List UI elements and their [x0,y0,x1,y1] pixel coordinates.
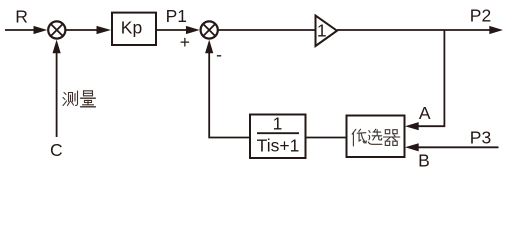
svg-text:R: R [15,7,28,27]
svg-text:P3: P3 [470,128,491,148]
svg-text:A: A [419,103,431,123]
gain amplifier 1 [316,16,338,47]
svg-text:Kp: Kp [121,18,142,38]
wire C input up to S1 [56,51,58,137]
wire P3 input [417,146,499,148]
glyph 量 [81,91,96,107]
wire S2 to amplifier [219,29,316,31]
svg-text:-: - [216,45,222,65]
glyph 选 [368,129,382,144]
wire S1 to Kp [66,29,99,31]
summing junction S2 [201,21,218,38]
svg-text:1: 1 [273,113,283,133]
glyph 低 [352,129,366,146]
arrowhead B into low selector [405,143,419,151]
svg-text:P2: P2 [470,6,491,26]
wire R input [5,29,36,31]
summing junction S1 [48,21,65,38]
block Kp [112,13,156,45]
arrowhead P2 output [489,26,503,34]
arrowhead A into low selector [405,122,419,130]
arrowhead into block Kp [97,26,112,34]
arrowhead C into S1 [53,40,61,54]
svg-text:P1: P1 [166,6,187,26]
svg-text:C: C [50,140,63,160]
svg-text:Tis+1: Tis+1 [257,136,300,156]
arrowhead into summing junction S2 [186,26,200,34]
svg-text:B: B [418,151,430,171]
arrowhead into summing junction S1 [34,26,48,34]
glyph 测 [63,91,78,106]
arrowhead feedback into S2 [205,40,213,54]
block 1/(Tis+1) [250,113,306,158]
wire branch down to low selector [417,30,444,126]
wire feedback to S2 [209,51,250,138]
block low selector [347,116,405,158]
wire Kp to S2 [157,29,188,31]
svg-text:+: + [180,32,190,52]
glyph 器 [384,130,400,146]
wire amplifier to P2 [337,29,491,31]
svg-text:1: 1 [317,20,327,40]
wire low selector to lag block [306,137,347,139]
